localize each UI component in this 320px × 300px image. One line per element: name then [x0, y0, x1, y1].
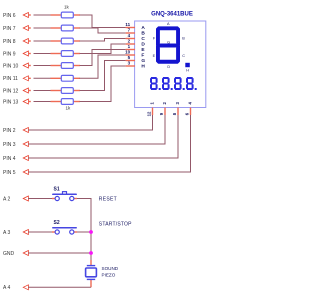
display bottom pin 1 (pad 12) [147, 101, 155, 116]
port PIN9 [3, 51, 28, 57]
wire PIN 3 to display pin 2 [28, 115, 165, 145]
7-segment display U1 GNQ-3641BUE [135, 21, 206, 108]
segment labels A-H [153, 22, 190, 73]
svg-text:GNQ-3641BUE: GNQ-3641BUE [151, 12, 193, 18]
wire node vertical to piezo [90, 232, 92, 262]
wire S1 to node [77, 199, 91, 233]
svg-text:PIN 5: PIN 5 [3, 170, 16, 176]
wire piezo to A4 [28, 286, 91, 288]
svg-text:PIN 12: PIN 12 [3, 88, 19, 94]
resistor 1k row PIN 11 [61, 75, 73, 81]
svg-text:B: B [182, 37, 185, 41]
display pin 1 (E) [126, 44, 146, 53]
pin legs row PIN 8 [28, 40, 80, 42]
svg-text:A 2: A 2 [3, 196, 10, 202]
display pin 11 (A) [125, 22, 145, 31]
pin legs row PIN 9 [28, 53, 80, 55]
port A2 [3, 196, 28, 202]
svg-text:GND: GND [3, 251, 15, 257]
big 7-segment digit 8 [156, 26, 180, 63]
svg-text:PIEZO: PIEZO [102, 272, 116, 277]
junction S2 node [89, 230, 93, 234]
resistor 1k row PIN 7 [61, 25, 73, 31]
wire PIN 12 to display pin G [80, 61, 126, 91]
display bottom pin 2 (pad 9) [159, 101, 167, 115]
port PIN7 [3, 26, 28, 32]
svg-text:A 4: A 4 [3, 285, 10, 291]
svg-text:G: G [141, 58, 145, 64]
svg-text:RESET: RESET [99, 196, 117, 202]
port PIN4 [3, 156, 28, 162]
resistor 1k row PIN 9 [61, 51, 73, 57]
wire A2 to S1 [28, 198, 53, 200]
wire PIN 6 to resistor [34, 14, 52, 16]
wire PIN 12 to resistor [34, 90, 52, 92]
junction GND node [89, 251, 93, 255]
wire PIN 9 to display pin D [80, 44, 126, 54]
svg-text:B: B [141, 30, 145, 36]
resistor 1k row PIN 13 [61, 99, 73, 105]
svg-text:PIN 4: PIN 4 [3, 156, 16, 162]
display pin 7 (B) [126, 28, 146, 37]
wire PIN 7 to resistor [34, 27, 52, 29]
svg-text:H: H [141, 63, 145, 69]
port GND [3, 251, 28, 257]
svg-text:F: F [141, 52, 144, 58]
piezo buzzer SOUND PIEZO [86, 260, 97, 287]
wire PIN 4 to display pin 3 [28, 115, 178, 159]
wire PIN 6 to display pin A [80, 15, 126, 28]
wire PIN 10 to display pin E [80, 50, 126, 66]
wire PIN 8 to display pin C [80, 39, 126, 42]
svg-text:1k: 1k [66, 105, 72, 110]
wire GND to node [28, 252, 91, 254]
wire PIN 5 to display pin 4 [28, 115, 190, 173]
small digits 8.8.8.8. [150, 77, 197, 90]
svg-text:H: H [186, 69, 189, 73]
pin legs row PIN 11 [28, 77, 80, 79]
svg-text:A: A [167, 22, 170, 26]
wire PIN 13 to display pin H [80, 66, 126, 102]
svg-text:PIN 11: PIN 11 [3, 76, 18, 82]
svg-text:SOUND: SOUND [102, 266, 119, 271]
svg-text:C: C [182, 54, 185, 58]
resistor 1k row PIN 10 [61, 63, 73, 69]
svg-text:PIN 2: PIN 2 [3, 128, 16, 134]
svg-text:1k: 1k [64, 4, 70, 9]
svg-text:S1: S1 [54, 187, 60, 193]
display pin 10 (F) [125, 50, 144, 59]
pin legs row PIN 10 [28, 65, 80, 67]
wire PIN 9 to resistor [34, 53, 52, 55]
pin legs row PIN 7 [28, 27, 80, 29]
svg-text:G: G [167, 40, 170, 44]
svg-text:A: A [141, 25, 145, 31]
svg-text:PIN 6: PIN 6 [3, 13, 16, 19]
wire PIN 10 to resistor [34, 65, 52, 67]
port PIN6 [3, 13, 28, 19]
resistor 1k row PIN 8 [61, 38, 73, 44]
pin legs row PIN 6 [28, 14, 80, 16]
display pin 4 (C) [126, 33, 146, 42]
svg-text:START/STOP: START/STOP [99, 222, 132, 228]
port A3 [3, 230, 28, 236]
display bottom pin 4 (pad 6) [185, 101, 193, 115]
svg-text:D: D [167, 65, 170, 69]
svg-text:PIN 10: PIN 10 [3, 63, 19, 69]
label SOUND PIEZO [102, 266, 119, 277]
svg-text:D: D [141, 41, 145, 47]
wire PIN 11 to display pin F [80, 55, 126, 78]
display pin 2 (D) [126, 39, 146, 48]
switch S1 (RESET) [52, 192, 77, 201]
wire PIN 8 to resistor [34, 40, 52, 42]
svg-text:A 3: A 3 [3, 230, 10, 236]
port PIN8 [3, 39, 28, 45]
port PIN11 [3, 76, 28, 82]
display pin 3 (H) [126, 61, 146, 70]
port PIN3 [3, 142, 28, 148]
svg-text:12: 12 [147, 111, 152, 116]
wire PIN 7 to display pin B [80, 28, 126, 33]
wire PIN 2 to display pin 1 [28, 115, 152, 131]
port PIN12 [3, 88, 28, 94]
port PIN5 [3, 170, 28, 176]
wire PIN 11 to resistor [34, 77, 52, 79]
resistor 1k row PIN 12 [61, 88, 73, 94]
svg-text:PIN 7: PIN 7 [3, 26, 16, 32]
display bottom pin 3 (pad 8) [172, 101, 180, 115]
port PIN2 [3, 128, 28, 134]
display pin 5 (G) [126, 55, 146, 64]
switch S2 (START/STOP) [52, 192, 77, 234]
svg-text:10: 10 [125, 50, 131, 55]
port A4 [3, 285, 28, 291]
pin legs row PIN 13 [28, 101, 80, 103]
svg-text:PIN 9: PIN 9 [3, 51, 16, 57]
decimal point of big digit [185, 63, 190, 67]
svg-text:PIN 8: PIN 8 [3, 39, 16, 45]
wire S2 to node [77, 231, 91, 233]
resistor 1k row PIN 6 [61, 12, 73, 18]
svg-text:PIN 3: PIN 3 [3, 142, 16, 148]
svg-text:S2: S2 [54, 220, 60, 226]
svg-text:C: C [141, 36, 145, 42]
pin legs row PIN 12 [28, 90, 80, 92]
wire A3 to S2 [28, 231, 53, 233]
svg-text:11: 11 [125, 22, 130, 27]
port PIN10 [3, 63, 28, 69]
port PIN13 [3, 99, 28, 105]
svg-text:PIN 13: PIN 13 [3, 99, 19, 105]
wire PIN 13 to resistor [34, 101, 52, 103]
